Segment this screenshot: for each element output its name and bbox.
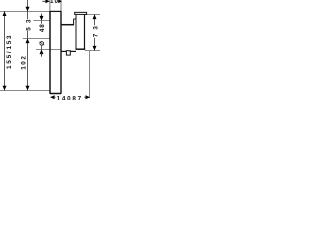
lower stem small box	[66, 51, 70, 55]
arrow down 102 bottom	[26, 86, 30, 91]
arrow down 155/153	[3, 86, 7, 91]
arrow up 73	[93, 15, 97, 20]
extension line D knob top (y=20.1)	[33, 20, 50, 22]
top dim 10: left ext line	[49, 0, 51, 11]
arrow up onto mid line (53/102)	[26, 39, 30, 44]
top dim 10: right ext line	[60, 0, 62, 11]
dimension 155/153 line	[4, 12, 6, 91]
svg-text:53: 53	[26, 15, 33, 30]
extension line bottom (y=90.2)	[0, 90, 50, 92]
o48 bottom arrow tail	[41, 53, 43, 57]
box bottom edge	[76, 48, 86, 50]
lower stem line	[61, 50, 76, 52]
extension line H vertical wall (x=89.6)	[89, 51, 91, 98]
arrow up 155/153	[3, 11, 7, 16]
dimension 73 line	[94, 15, 96, 26]
box left edge	[75, 14, 77, 49]
box right edge	[84, 14, 86, 49]
arrow down onto top line (53)	[26, 7, 30, 12]
stem top step: horizontal to box	[74, 18, 77, 20]
stem top step: vertical	[73, 19, 75, 25]
svg-text:102: 102	[21, 54, 28, 69]
extension line mid C (y=38.1)	[23, 38, 51, 40]
svg-text:155/153: 155/153	[6, 34, 13, 69]
bottom dim arrow right-pointing	[86, 95, 91, 99]
extension line E knob bottom (y=49.6)	[36, 49, 61, 51]
svg-text:73: 73	[93, 22, 100, 37]
plate body	[49, 11, 51, 94]
svg-text:14087: 14087	[57, 96, 83, 100]
arrow down 73	[93, 46, 97, 51]
top dim arrow right-pointing	[45, 0, 49, 3]
arrow up o48	[40, 50, 44, 55]
extension line top (y=11.3)	[0, 11, 50, 13]
arrow down o48	[40, 16, 44, 21]
extension line G right bottom (y=50.5)	[85, 50, 100, 52]
svg-text:Ø 48: Ø 48	[39, 23, 46, 46]
svg-text:10: 10	[50, 0, 59, 5]
dimension o48 top arrow tail	[41, 14, 43, 17]
top dim arrow left-pointing	[58, 0, 62, 3]
bottom dim arrow left-pointing	[50, 95, 55, 99]
box top cap	[75, 12, 87, 14]
plate bottom edge thick	[50, 93, 61, 95]
extension line F right top (y=14.4)	[85, 14, 100, 16]
dimension 53/102 line	[27, 0, 29, 19]
stem top step: horizontal from plate	[61, 24, 74, 26]
